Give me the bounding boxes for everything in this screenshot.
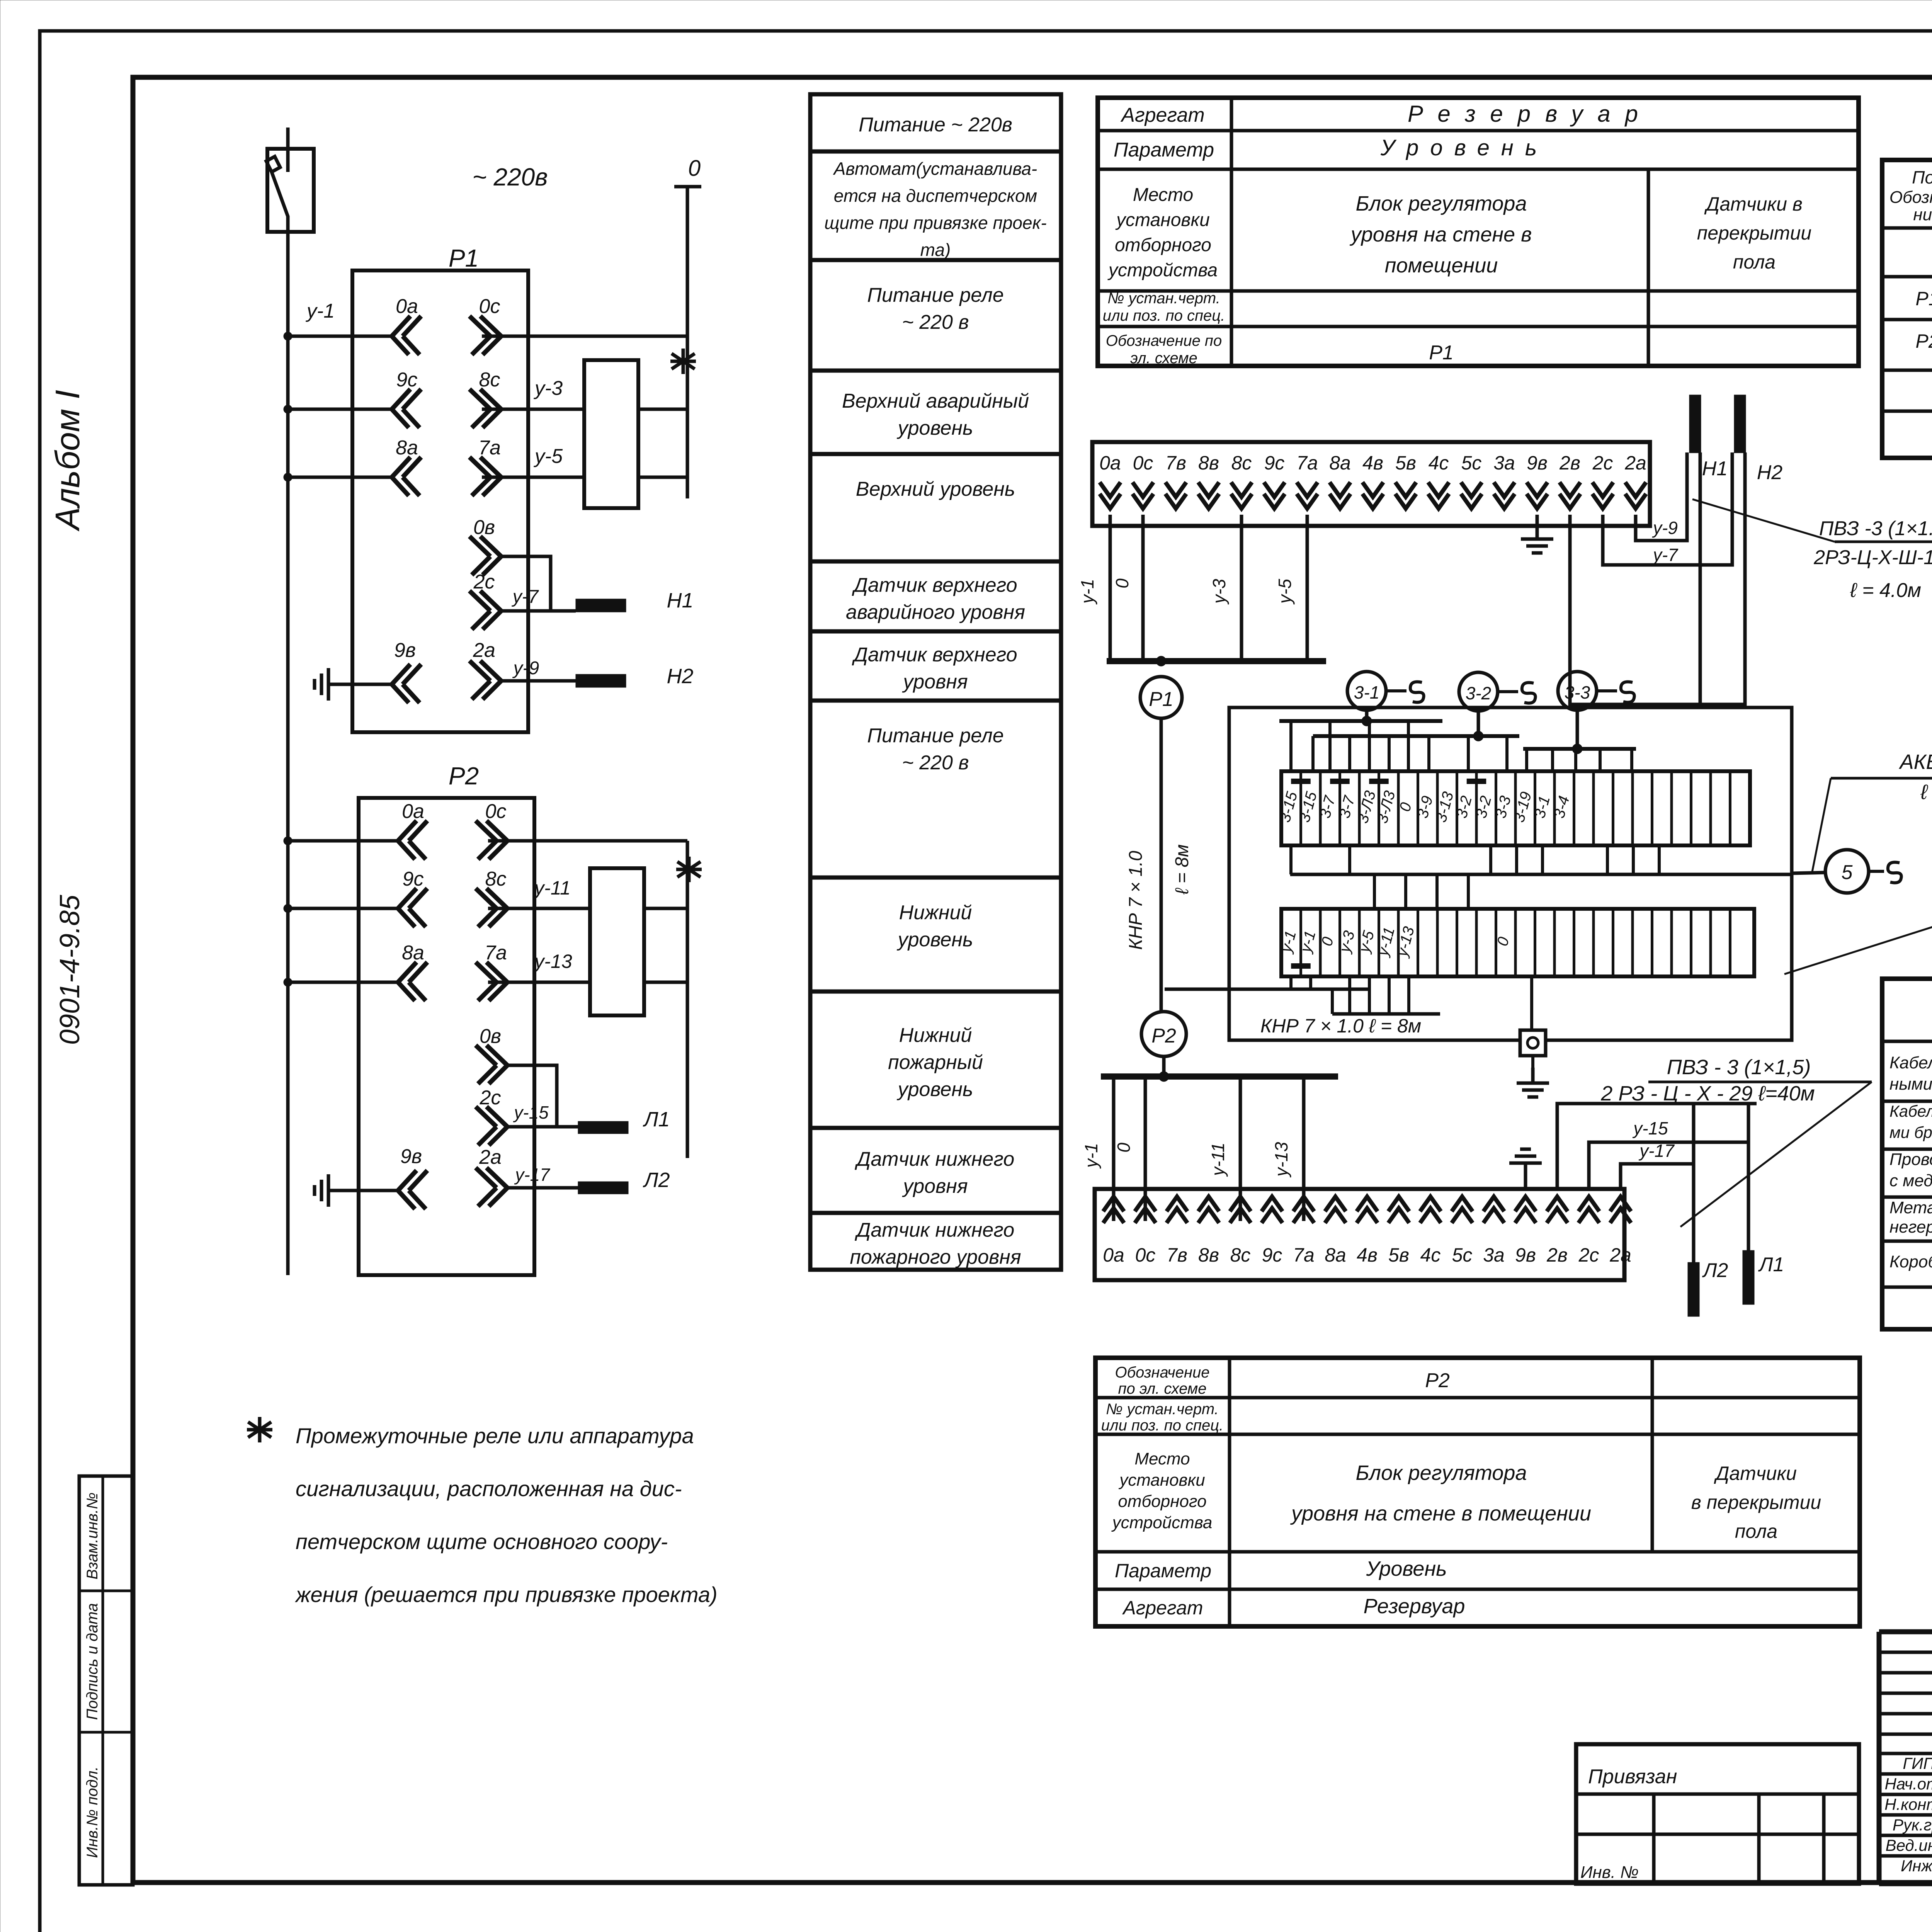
svg-text:КНР 7 × 1.0: КНР 7 × 1.0 <box>1126 850 1146 950</box>
bottom table row Обозначение <box>1115 1364 1449 1397</box>
wire row 9с-8с <box>284 405 584 413</box>
svg-text:Р1: Р1 <box>449 244 479 272</box>
svg-text:Л2: Л2 <box>1702 1259 1728 1282</box>
svg-text:Р2: Р2 <box>1425 1369 1450 1392</box>
svg-text:8с: 8с <box>1231 452 1252 474</box>
label у-13 <box>533 951 572 972</box>
side stamp column (Взам.инв.№ / Подпись и дата / Инв.№ подл.) <box>79 1476 133 1885</box>
ground P1 <box>315 668 344 701</box>
svg-text:0в: 0в <box>473 516 495 539</box>
wire 3-1 drop <box>1362 710 1372 726</box>
svg-text:№ устан.черт.: № устан.черт. <box>1107 290 1220 307</box>
svg-text:Н1: Н1 <box>1702 457 1728 480</box>
svg-text:уровень: уровень <box>897 929 973 951</box>
svg-text:у-1: у-1 <box>306 300 335 322</box>
svg-text:у-13: у-13 <box>533 951 572 972</box>
signature rows <box>1884 1754 1932 1875</box>
wire row 8а-7а P2 <box>284 978 590 986</box>
svg-text:8с: 8с <box>485 868 507 890</box>
note line 2 <box>296 1476 682 1501</box>
wire 0 drop <box>1112 515 1143 661</box>
callout ПВЗ-3 (1х1,5) bottom <box>1648 1056 1872 1082</box>
svg-text:у-7: у-7 <box>512 587 539 607</box>
svg-text:9в: 9в <box>394 639 416 662</box>
svg-text:Кабель контрольный с мед-: Кабель контрольный с мед- <box>1889 1053 1932 1072</box>
wire row 9с-8с P2 <box>284 904 590 913</box>
svg-text:Н1: Н1 <box>667 589 693 612</box>
svg-text:0: 0 <box>688 156 701 181</box>
svg-text:0: 0 <box>1114 1143 1134 1153</box>
bottom table row Место установки <box>1111 1449 1821 1542</box>
svg-text:Нижний: Нижний <box>899 901 972 924</box>
svg-text:та): та) <box>920 240 951 260</box>
callout l=4.0м <box>1850 579 1921 602</box>
svg-text:2с: 2с <box>480 1087 501 1109</box>
svg-text:9с: 9с <box>396 369 418 391</box>
wire у-1 drop <box>1077 515 1110 661</box>
svg-text:Р1: Р1 <box>1915 288 1932 310</box>
equip row Р2 <box>1915 324 1932 367</box>
svg-text:0: 0 <box>1112 578 1132 588</box>
electrode wire Л1 <box>1747 1104 1750 1250</box>
svg-text:9с: 9с <box>403 868 424 890</box>
lamp Н2 <box>576 665 694 688</box>
top table row Агрегат <box>1120 101 1653 127</box>
label cell: Нижний <box>888 1024 983 1101</box>
label у-11 <box>533 877 571 899</box>
junction box outline <box>1229 707 1792 1040</box>
svg-text:0с: 0с <box>1135 1244 1156 1266</box>
svg-text:3-2: 3-2 <box>1466 683 1491 703</box>
callout ПВЗ-3 (1х1.5) <box>1819 517 1932 542</box>
svg-text:Вед.инж.: Вед.инж. <box>1886 1836 1932 1854</box>
wire 2а bend у-9 <box>1636 452 1687 541</box>
node 0 terminal <box>674 156 701 187</box>
circuit breaker QF <box>266 128 314 232</box>
wire 0 bus <box>686 187 689 498</box>
svg-text:Уровень: Уровень <box>1380 135 1549 160</box>
bottom terminal box with terminals 0а..2а <box>1095 1189 1631 1280</box>
svg-text:4с: 4с <box>1420 1244 1441 1266</box>
svg-text:Параметр: Параметр <box>1114 139 1214 161</box>
svg-text:Р2: Р2 <box>1915 330 1932 352</box>
svg-text:отборного: отборного <box>1118 1492 1206 1511</box>
junction dot P1 <box>1156 656 1166 666</box>
svg-text:уровень: уровень <box>897 417 973 439</box>
svg-text:3а: 3а <box>1493 452 1515 474</box>
wire у-17 to Л2 <box>507 1165 578 1188</box>
wire у-15 to Л1 <box>507 1102 578 1127</box>
label cell: Верхний аварийный <box>842 390 1029 439</box>
terminal strip 2 (у-1..у-13) <box>1277 909 1754 976</box>
vertical text 0901-4-9.85 <box>54 895 85 1045</box>
svg-text:ℓ = 4.0м: ℓ = 4.0м <box>1850 579 1921 602</box>
svg-text:у-15: у-15 <box>513 1102 549 1122</box>
lamp Л2 <box>578 1168 670 1194</box>
bottom table row Агрегат <box>1122 1595 1465 1619</box>
cable r2 <box>1889 1101 1932 1144</box>
equipment table grid <box>1882 160 1932 458</box>
contact 0с P1 <box>469 295 501 355</box>
svg-text:7а: 7а <box>485 942 507 964</box>
callout 2кс-40 leader <box>1784 922 1932 974</box>
svg-text:4в: 4в <box>1357 1244 1378 1266</box>
svg-text:Нач.отд.: Нач.отд. <box>1884 1775 1932 1793</box>
cable r3 <box>1889 1150 1932 1192</box>
wire strip link line <box>1290 873 1792 876</box>
svg-text:5: 5 <box>1842 861 1853 884</box>
equip row Р1 <box>1915 288 1932 310</box>
svg-text:2а: 2а <box>479 1146 502 1168</box>
svg-text:Л1: Л1 <box>1758 1253 1784 1276</box>
svg-text:у-13: у-13 <box>1271 1142 1291 1178</box>
title block grid <box>1879 1632 1932 1884</box>
svg-text:8с: 8с <box>479 369 500 391</box>
svg-text:8с: 8с <box>1230 1244 1251 1266</box>
svg-text:ГИП: ГИП <box>1903 1754 1932 1772</box>
bus P2 <box>1101 1073 1338 1080</box>
cable table grid <box>1882 979 1932 1329</box>
svg-text:2с: 2с <box>1592 452 1613 474</box>
contact 2с P2 <box>476 1087 507 1145</box>
wire 3-3 drop <box>1572 710 1582 754</box>
svg-text:негерметический: негерметический <box>1889 1218 1932 1236</box>
svg-text:7а: 7а <box>1293 1244 1315 1266</box>
contact 0а P2 <box>398 800 427 859</box>
svg-text:Датчики: Датчики <box>1714 1463 1797 1484</box>
contact 7а P1 <box>469 437 501 496</box>
svg-text:Параметр: Параметр <box>1115 1560 1211 1582</box>
svg-text:Подпись и дата: Подпись и дата <box>84 1603 101 1720</box>
wire row 0а-0с P2 <box>284 837 687 845</box>
cable r5 <box>1889 1247 1932 1287</box>
svg-text:0в: 0в <box>480 1025 501 1048</box>
top table row Обозначение <box>1106 332 1454 367</box>
contact 2с P1 <box>469 571 501 629</box>
svg-text:Место: Место <box>1134 1449 1190 1468</box>
sensor circle 3-1 <box>1347 672 1424 710</box>
lamp Л1 <box>578 1108 670 1134</box>
wire у-13 drop2 <box>1271 1077 1304 1221</box>
svg-text:Блок регулятора: Блок регулятора <box>1356 1461 1527 1485</box>
label cell: Датчик верхнего <box>852 644 1017 693</box>
svg-text:9с: 9с <box>1264 452 1285 474</box>
svg-text:2РЗ-Ц-Х-Ш-10: 2РЗ-Ц-Х-Ш-10 <box>1813 546 1932 569</box>
svg-text:0с: 0с <box>485 800 507 823</box>
svg-text:Коробка соединительная: Коробка соединительная <box>1889 1252 1932 1271</box>
svg-text:Обозначение по: Обозначение по <box>1106 332 1222 349</box>
contact 9в P1 <box>392 639 421 703</box>
svg-text:Альбом I: Альбом I <box>48 390 87 532</box>
svg-text:ПВЗ -3 (1×1.5): ПВЗ -3 (1×1.5) <box>1819 517 1932 540</box>
svg-text:у-17: у-17 <box>1638 1141 1675 1161</box>
svg-text:у-9: у-9 <box>512 658 539 679</box>
svg-text:уровня: уровня <box>902 671 968 693</box>
contact 9с P1 <box>392 369 421 428</box>
contact 0в P2 <box>476 1025 557 1127</box>
bus drop wires into strip 1 <box>1291 721 1632 771</box>
svg-text:Резервуар: Резервуар <box>1364 1595 1465 1618</box>
wire lower collect <box>1332 989 1440 1014</box>
contact 0с P2 <box>476 800 507 859</box>
wire feed bus <box>286 232 290 1275</box>
svg-text:у-15: у-15 <box>1632 1118 1668 1138</box>
strip interconnect drops <box>1291 845 1659 909</box>
wire to circle 5 <box>1792 872 1826 873</box>
svg-text:уровень: уровень <box>897 1078 973 1101</box>
svg-text:Блок регулятора: Блок регулятора <box>1356 192 1527 215</box>
svg-text:Уровень: Уровень <box>1366 1557 1447 1580</box>
cable r1 <box>1889 1048 1932 1094</box>
svg-text:или поз. по спец.: или поз. по спец. <box>1101 1417 1223 1434</box>
ground top box 9в <box>1521 515 1553 553</box>
junction dot P2 <box>1159 1056 1169 1082</box>
svg-text:с медной жилой сеч. 1,5 мм²: с медной жилой сеч. 1,5 мм² <box>1889 1171 1932 1190</box>
svg-text:5в: 5в <box>1388 1244 1409 1266</box>
svg-text:Н2: Н2 <box>667 665 693 688</box>
relay P2 box <box>359 798 534 1275</box>
contact 8а P2 <box>398 942 427 1001</box>
svg-text:или поз. по спец.: или поз. по спец. <box>1103 307 1225 324</box>
sensor circle 5 <box>1825 850 1901 893</box>
svg-text:5с: 5с <box>1452 1244 1473 1266</box>
cable gland box <box>1520 1030 1546 1056</box>
svg-text:Место: Место <box>1133 185 1193 205</box>
svg-text:4с: 4с <box>1429 452 1449 474</box>
drop strip2 cell2 <box>1309 976 1312 989</box>
note line 3 <box>296 1529 668 1554</box>
svg-text:3-3: 3-3 <box>1565 682 1590 702</box>
svg-text:по эл. схеме: по эл. схеме <box>1118 1380 1206 1397</box>
svg-text:Поз: Поз <box>1912 167 1932 187</box>
label у-1 <box>306 300 335 322</box>
bottom table row Параметр <box>1115 1557 1447 1582</box>
svg-text:у-17: у-17 <box>514 1165 550 1185</box>
svg-text:уровня на стене в: уровня на стене в <box>1349 223 1532 246</box>
svg-text:№ устан.черт.: № устан.черт. <box>1106 1401 1219 1418</box>
svg-text:Л1: Л1 <box>643 1108 670 1131</box>
svg-text:Металлорукав гибкий: Металлорукав гибкий <box>1889 1198 1932 1217</box>
svg-text:2а: 2а <box>1624 452 1646 474</box>
electrode wire Л2 <box>1692 1104 1696 1262</box>
label cell: Нижний <box>897 901 973 951</box>
wire у-9 to Н2 <box>501 658 576 681</box>
wire left bus у <box>1165 988 1369 991</box>
svg-text:жения (решается при привязке п: жения (решается при привязке проекта) <box>294 1582 718 1607</box>
top table row Место установки <box>1107 185 1811 281</box>
equip header <box>1889 167 1932 224</box>
svg-text:5в: 5в <box>1395 452 1416 474</box>
wire 2с bend у-7 <box>1603 452 1732 565</box>
callout leader to wires <box>1692 499 1835 542</box>
svg-text:9в: 9в <box>1527 452 1548 474</box>
ground bottom box 9в <box>1509 1149 1542 1189</box>
svg-text:у-5: у-5 <box>1275 579 1295 605</box>
привязан box <box>1576 1744 1859 1884</box>
note asterisk <box>247 1417 272 1442</box>
cable label КНР 7х1.0 vert <box>1126 850 1146 950</box>
svg-text:у-11: у-11 <box>1208 1143 1228 1177</box>
svg-text:2 РЗ - Ц - Х - 29 ℓ=40м: 2 РЗ - Ц - Х - 29 ℓ=40м <box>1600 1082 1815 1105</box>
note line 1 <box>296 1423 694 1448</box>
cable label КНР 7х1.0 l=8м <box>1260 1015 1421 1037</box>
svg-text:8а: 8а <box>396 437 418 459</box>
label cell: Питание реле <box>867 284 1004 333</box>
svg-text:8а: 8а <box>1329 452 1351 474</box>
svg-text:Р2: Р2 <box>449 762 479 790</box>
svg-text:ние: ние <box>1913 205 1932 224</box>
svg-text:у-1: у-1 <box>1081 1143 1101 1169</box>
svg-text:Провод установочный гибкий: Провод установочный гибкий <box>1889 1150 1932 1169</box>
wire feed drop <box>286 128 290 149</box>
top table row № устан.черт. <box>1103 290 1225 324</box>
svg-text:перекрытии: перекрытии <box>1697 222 1811 244</box>
svg-text:Верхний аварийный: Верхний аварийный <box>842 390 1029 412</box>
label cell: Датчик нижнего <box>850 1219 1021 1269</box>
svg-text:Р2: Р2 <box>1151 1025 1176 1047</box>
svg-text:7а: 7а <box>1296 452 1318 474</box>
bus tier1 <box>1279 719 1442 723</box>
top terminal box with terminals 0а..2а <box>1092 442 1650 526</box>
wire у-11 drop2 <box>1208 1077 1240 1221</box>
svg-text:эл. схеме: эл. схеме <box>1130 350 1197 367</box>
callout АКВВБ 19х2.5 <box>1831 750 1932 804</box>
device circle Р1 <box>1140 677 1182 718</box>
svg-text:Инж.: Инж. <box>1901 1857 1932 1875</box>
callout leader bottom <box>1680 1082 1872 1227</box>
svg-text:2а: 2а <box>1609 1244 1631 1266</box>
svg-text:0а: 0а <box>1099 452 1121 474</box>
wire 0 to gland <box>1530 976 1533 1030</box>
svg-text:отборного: отборного <box>1115 235 1211 255</box>
svg-text:ПВЗ - 3 (1×1,5): ПВЗ - 3 (1×1,5) <box>1667 1056 1811 1079</box>
svg-text:Агрегат: Агрегат <box>1120 104 1204 126</box>
svg-text:ми бронированный сеч. 2.5мм²: ми бронированный сеч. 2.5мм² <box>1889 1123 1932 1141</box>
svg-text:2с: 2с <box>473 571 495 593</box>
svg-text:Питание ~ 220в: Питание ~ 220в <box>859 114 1012 136</box>
wire у-15 riser <box>1589 1118 1748 1189</box>
contact 7а P2 <box>476 942 507 1001</box>
contact 8с P1 <box>469 369 501 428</box>
svg-text:8в: 8в <box>1198 452 1219 474</box>
svg-text:у-1: у-1 <box>1077 579 1097 605</box>
sensor circle 3-2 <box>1459 672 1536 711</box>
bus tier2 <box>1313 734 1519 738</box>
wire у-1 drop2 <box>1081 1077 1114 1221</box>
svg-text:0с: 0с <box>1133 452 1153 474</box>
svg-text:у-11: у-11 <box>533 877 571 899</box>
wire 9в row <box>344 683 392 686</box>
svg-text:7в: 7в <box>1167 1244 1187 1266</box>
svg-text:Датчик верхнего: Датчик верхнего <box>852 574 1017 597</box>
svg-text:петчерском щите основного с: петчерском щите основного соору- <box>296 1529 668 1554</box>
svg-text:0901-4-9.85: 0901-4-9.85 <box>54 895 85 1045</box>
label cell: Автомат(устанавлива- <box>824 159 1046 260</box>
label cell: Питание реле <box>867 724 1004 774</box>
svg-text:Датчик верхнего: Датчик верхнего <box>852 644 1017 666</box>
svg-text:пожарного уровня: пожарного уровня <box>850 1246 1021 1269</box>
intermediate relay box * <box>584 349 696 508</box>
drops strip2 cells 4-7 <box>1350 976 1409 1014</box>
svg-text:Датчик нижнего: Датчик нижнего <box>855 1148 1015 1170</box>
device circle Р2 <box>1141 1012 1186 1056</box>
svg-text:Верхний уровень: Верхний уровень <box>856 478 1015 500</box>
svg-text:~ 220 в: ~ 220 в <box>902 311 969 333</box>
svg-text:ℓ = 50: ℓ = 50 <box>1920 781 1932 804</box>
contact 0а P1 <box>392 295 421 355</box>
top middle table grid <box>1098 98 1859 366</box>
svg-text:7а: 7а <box>478 437 501 459</box>
привязан label <box>1588 1765 1677 1788</box>
svg-text:0а: 0а <box>396 295 418 318</box>
top table row Параметр <box>1114 135 1548 161</box>
wire row 8а-7а <box>284 473 584 481</box>
relay P1 label <box>449 244 479 272</box>
wire у-5 drop <box>1275 515 1307 661</box>
terminal strip 1 (3-15..3-4) <box>1276 771 1750 845</box>
label у-3 <box>534 377 563 400</box>
contact 8а P1 <box>392 437 421 496</box>
intermediate relay box * P2 <box>590 857 702 1015</box>
svg-text:5с: 5с <box>1461 452 1482 474</box>
wire 0 bus P2 <box>686 841 689 1158</box>
contact 9в P2 <box>398 1145 427 1209</box>
vertical text Альбом I <box>48 390 87 532</box>
bus tier3 <box>1523 747 1636 751</box>
contact 9с P2 <box>398 868 427 927</box>
lamp Н1 <box>576 589 694 612</box>
wire 0 drop2 <box>1114 1077 1145 1221</box>
svg-text:ℓ = 8м: ℓ = 8м <box>1172 844 1192 895</box>
svg-text:9в: 9в <box>1515 1244 1536 1266</box>
wire row 0а-0с <box>284 332 687 340</box>
electrode Н1 <box>1689 395 1728 480</box>
svg-text:Инв.№ подл.: Инв.№ подл. <box>84 1766 101 1858</box>
label у-5 <box>534 445 563 468</box>
svg-text:Автомат(устанавлива-: Автомат(устанавлива- <box>833 159 1037 179</box>
svg-text:уровня на стене в помещении: уровня на стене в помещении <box>1290 1502 1591 1525</box>
svg-text:устройства: устройства <box>1111 1513 1213 1532</box>
cable label l=8м vert <box>1172 844 1192 895</box>
svg-text:8в: 8в <box>1198 1244 1219 1266</box>
contact 2а P1 <box>469 639 501 699</box>
electrode Л2 <box>1688 1259 1728 1316</box>
svg-text:7в: 7в <box>1165 452 1186 474</box>
svg-text:ется на диспетчерском: ется на диспетчерском <box>834 186 1037 206</box>
ground P2 <box>315 1174 344 1207</box>
label cell: Питание ~ 220в <box>859 114 1012 136</box>
relay P1 box <box>352 270 528 732</box>
ground mid <box>1517 1056 1549 1097</box>
svg-text:3-1: 3-1 <box>1354 682 1379 702</box>
svg-text:8а: 8а <box>1325 1244 1346 1266</box>
svg-text:уровня: уровня <box>902 1175 968 1197</box>
contact 0в P1 <box>469 516 551 611</box>
wire у-7 to Н1 <box>501 587 576 611</box>
wire 9в row P2 <box>344 1189 398 1192</box>
svg-text:2с: 2с <box>1578 1244 1599 1266</box>
svg-text:3а: 3а <box>1483 1244 1505 1266</box>
label column boxes <box>810 94 1061 1270</box>
svg-text:0а: 0а <box>1103 1244 1124 1266</box>
svg-text:Питание реле: Питание реле <box>867 284 1004 306</box>
electrode Л1 <box>1743 1250 1784 1304</box>
label cell: Датчик верхнего <box>846 574 1025 624</box>
bus P1 <box>1107 658 1326 664</box>
note line 4 <box>294 1582 718 1607</box>
svg-text:Питание реле: Питание реле <box>867 724 1004 747</box>
svg-text:пола: пола <box>1735 1520 1777 1542</box>
